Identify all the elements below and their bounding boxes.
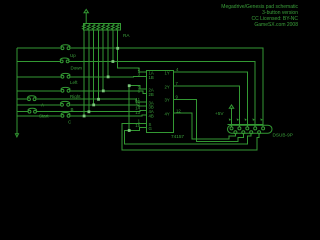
DSUB top pin wedge marks: [229, 118, 263, 120]
RA zigzag elements: [83, 24, 119, 29]
switch Start: [28, 108, 37, 113]
IC U1 74157 box: [147, 70, 174, 132]
switch A: [27, 96, 36, 101]
svg-text:3Y: 3Y: [165, 98, 170, 103]
junction Down/RA: [112, 60, 115, 63]
switch C: [61, 112, 70, 117]
wire 2Y pin7 to DSUB: [174, 86, 240, 127]
svg-text:Left: Left: [70, 80, 78, 85]
title text block: [221, 4, 298, 28]
svg-text:DSUB-9P: DSUB-9P: [273, 132, 293, 137]
svg-text:GameSX.com 2008: GameSX.com 2008: [254, 22, 298, 28]
svg-text:12: 12: [176, 108, 181, 113]
junction B/RA: [92, 104, 95, 107]
switch Left: [61, 73, 70, 78]
wire Right row: [17, 91, 147, 94]
svg-text:1B: 1B: [149, 75, 154, 80]
wire Down row: [17, 61, 255, 127]
wire select DSUB pin9 to IC pin1: [122, 123, 259, 149]
wire Left row: [17, 75, 147, 77]
switch Down: [60, 58, 69, 63]
wire Start row: [17, 111, 147, 112]
wire A row: [17, 99, 147, 102]
svg-text:13: 13: [135, 110, 140, 115]
svg-text:Down: Down: [71, 66, 83, 71]
DSUB shell top bar: [228, 123, 264, 125]
wire 4Y pin12 to DSUB pin6: [174, 113, 236, 139]
wire RA pin4 to A row: [97, 30, 99, 99]
junction A/RA: [97, 98, 100, 101]
ground bus wire: [16, 48, 18, 134]
svg-text:4Y: 4Y: [165, 112, 170, 117]
switch B: [60, 101, 70, 106]
junction Start/RA: [88, 110, 91, 113]
resistor array RA box: [84, 24, 121, 31]
wire RA pin6 to Left row: [107, 30, 109, 77]
wire 3Y pin9 to DSUB pin7: [174, 99, 244, 141]
IC pin name labels: [149, 70, 170, 131]
wire RA pin2 to Start row: [88, 30, 90, 112]
wire 1Y pin4 to DSUB: [174, 72, 248, 127]
+5V symbol at DSUB: [229, 105, 233, 127]
wire RA pin1 to C row: [83, 30, 85, 116]
+5V symbol at RA: [84, 9, 88, 23]
connector DSUB-9P shell: [228, 125, 273, 133]
DSUB top row pin circles: [230, 127, 265, 130]
svg-text:4B: 4B: [149, 113, 154, 118]
junction gnd join: [128, 129, 131, 132]
junction Left/RA: [107, 76, 110, 79]
switch Up: [61, 45, 70, 50]
svg-text:2B: 2B: [149, 92, 154, 97]
ground arrow: [15, 134, 18, 137]
svg-text:2Y: 2Y: [165, 84, 170, 89]
junction Right/RA: [102, 90, 105, 93]
switch Right: [61, 87, 70, 92]
wire ground DSUB pin8 to IC pin15: [124, 128, 251, 145]
DSUB bottom row pin circles: [234, 131, 261, 134]
junction Up/RA: [116, 47, 119, 50]
svg-text:RA: RA: [123, 33, 130, 38]
wire C row: [17, 115, 147, 116]
junction C/RA: [83, 115, 86, 118]
wire RA pin8 to IC pin2: [118, 30, 147, 72]
svg-text:+5V: +5V: [215, 111, 224, 116]
svg-text:74157: 74157: [171, 134, 184, 139]
junction 2A corner: [128, 84, 131, 87]
svg-text:1Y: 1Y: [165, 70, 170, 75]
wire B row: [17, 105, 147, 106]
svg-text:Up: Up: [70, 53, 76, 58]
svg-text:Right: Right: [70, 94, 81, 99]
wire RA pin3 to B row: [93, 30, 95, 105]
wire RA pin7 to Down row: [112, 30, 114, 61]
IC pin numbers: [135, 67, 181, 128]
wire Up row: [17, 48, 263, 127]
wire RA pin5 to Right row: [102, 30, 104, 91]
wire 2A ground: [129, 86, 146, 131]
